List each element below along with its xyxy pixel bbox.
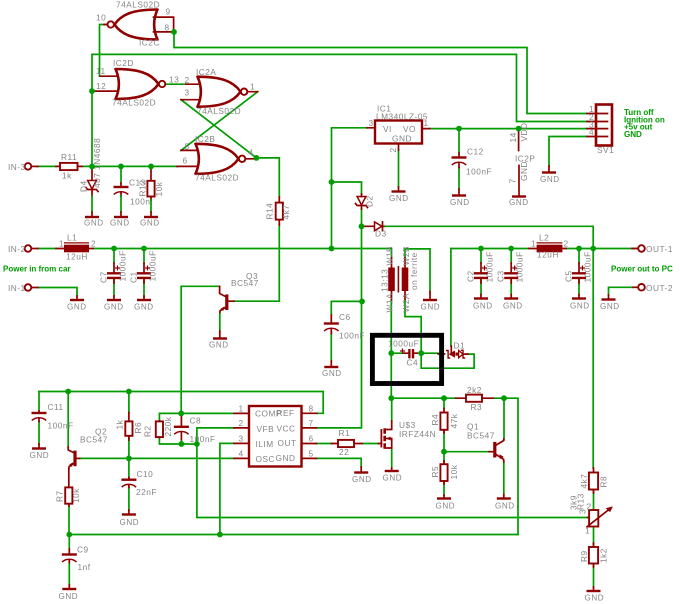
wire Q2 base [67, 392, 69, 448]
svg-text:IC2C: IC2C [139, 38, 160, 48]
wire R2 bottom to C8 bottom node [159, 437, 197, 444]
wire C12 leads [458, 129, 460, 189]
svg-text:LM340LZ-05: LM340LZ-05 [376, 112, 428, 122]
wire OUT rail down to R8 [592, 249, 594, 469]
svg-text:1: 1 [239, 404, 244, 414]
ground under mosfet [383, 468, 403, 483]
svg-text:2k2: 2k2 [467, 385, 482, 395]
wire SV1 pin4 to ground [549, 137, 587, 167]
wire IC2D.13 to IC2A.2 [166, 83, 188, 85]
wire R9 to ground lead [593, 564, 595, 588]
svg-text:GND: GND [276, 453, 296, 463]
svg-text:1000uF: 1000uF [148, 250, 158, 281]
svg-text:10: 10 [96, 13, 106, 23]
svg-text:22nF: 22nF [136, 487, 157, 497]
wire IC2C.8/9 junction down and right to SV1 pin1 [174, 32, 587, 114]
svg-text:IC2D: IC2D [113, 58, 134, 68]
wire MOSFET source to ground [391, 449, 393, 468]
svg-text:1k: 1k [62, 171, 72, 181]
svg-text:REF: REF [277, 408, 295, 418]
ground under IN-1 [67, 296, 87, 312]
wire D1 anode feed from output rail [450, 249, 452, 347]
svg-text:D1: D1 [454, 341, 466, 351]
ground under C13 [110, 217, 130, 228]
svg-text:GND: GND [495, 502, 515, 511]
svg-text:C2: C2 [466, 270, 476, 282]
svg-text:14: 14 [508, 132, 518, 142]
wire X latch diagonal IC2A.1 to IC2B.5 [181, 92, 258, 151]
svg-text:6: 6 [183, 156, 188, 166]
wire Q3 emitter [219, 314, 221, 331]
svg-text:3: 3 [369, 118, 374, 128]
wire R4 top lead [443, 398, 445, 408]
wire net from IC2D.12 junction: left rail up segment and to SV1 pin2 [92, 54, 587, 121]
wire R13 to R9 lead [593, 527, 595, 548]
svg-text:1: 1 [585, 526, 590, 536]
svg-text:BC547: BC547 [231, 278, 259, 288]
wire X latch diagonal IC2A.3 to IC2B.4 [181, 100, 256, 158]
svg-text:IC2B: IC2B [195, 134, 215, 144]
ground under OUT-2 [600, 295, 620, 311]
svg-text:C3: C3 [496, 270, 506, 282]
wire C3 leads [510, 249, 512, 295]
resistor R7 [55, 469, 82, 506]
svg-text:2: 2 [91, 239, 96, 249]
svg-text:4: 4 [589, 127, 594, 137]
svg-text:GND: GND [473, 302, 493, 311]
svg-text:R5: R5 [430, 466, 440, 478]
svg-text:3: 3 [239, 434, 244, 444]
resistor R14 [265, 197, 292, 225]
svg-text:C4: C4 [407, 358, 419, 368]
resistor R1 [332, 428, 363, 457]
svg-text:1000uF: 1000uF [515, 251, 525, 282]
svg-text:100nF: 100nF [48, 421, 74, 431]
svg-text:1000uF: 1000uF [485, 251, 495, 282]
svg-text:GND: GND [389, 194, 409, 203]
svg-text:1000uF: 1000uF [388, 339, 419, 349]
svg-text:R4: R4 [430, 414, 440, 426]
wire C5 leads [578, 249, 580, 295]
svg-text:C5: C5 [564, 270, 574, 282]
svg-text:13: 13 [169, 75, 179, 85]
polarized capacitor C2 [466, 251, 495, 283]
svg-text:IN-2: IN-2 [8, 244, 26, 254]
inductor L2 [529, 233, 569, 260]
schottky diode pair D1 [438, 341, 468, 359]
wire W2B top to ground [405, 249, 430, 292]
svg-text:OUT-1: OUT-1 [646, 244, 673, 254]
transistor Q1 BC547 [467, 422, 504, 463]
svg-text:12uH: 12uH [537, 250, 559, 260]
svg-text:R2: R2 [143, 425, 153, 437]
ground under C3 [503, 295, 523, 311]
transformer core [397, 266, 399, 293]
svg-text:C9: C9 [77, 545, 89, 555]
svg-text:10k: 10k [154, 181, 164, 196]
wire U2 pin1 COMP node [159, 413, 234, 420]
resistor R8 [579, 468, 609, 493]
svg-text:GND: GND [120, 518, 140, 527]
svg-text:3: 3 [578, 509, 588, 514]
svg-text:R11: R11 [61, 152, 77, 162]
capacitor C12 [452, 147, 493, 177]
ground under C2 [473, 295, 493, 311]
svg-text:ILIM: ILIM [256, 439, 274, 449]
svg-text:GND: GND [450, 198, 470, 207]
svg-text:47k: 47k [449, 413, 459, 428]
svg-text:1k: 1k [115, 419, 125, 429]
svg-text:2: 2 [388, 147, 398, 152]
svg-text:74ALS02D: 74ALS02D [197, 106, 241, 116]
svg-text:2: 2 [239, 418, 244, 428]
control IC U2 (COMP/REF/VFB/VCC/ILIM/OUT/OSC/GND) [234, 404, 317, 467]
svg-text:R9: R9 [579, 550, 589, 562]
svg-text:BC547: BC547 [80, 435, 108, 445]
svg-text:GND: GND [140, 219, 160, 228]
svg-text:74ALS02D: 74ALS02D [195, 173, 239, 183]
ground under IC2P [509, 197, 529, 208]
svg-text:D4: D4 [79, 180, 89, 192]
mosfet U$3 IRFZ44N [378, 420, 436, 449]
svg-text:GND: GND [322, 369, 342, 378]
wire C2 leads [480, 249, 482, 295]
svg-text:C10: C10 [137, 469, 154, 479]
transformer winding W1B/W1A [380, 246, 395, 312]
svg-text:VI: VI [383, 124, 392, 134]
svg-text:C7: C7 [99, 271, 109, 283]
resistor R2 [143, 416, 174, 437]
svg-text:74ALS02D: 74ALS02D [112, 98, 156, 108]
svg-text:GND: GND [59, 592, 79, 601]
svg-text:R1: R1 [339, 428, 351, 438]
voltage regulator IC1 LM340LZ-05 [367, 104, 430, 153]
wire IN-1 to ground [38, 288, 77, 297]
ground under C5 [570, 295, 590, 311]
svg-text:5: 5 [185, 142, 190, 152]
svg-text:GND: GND [509, 198, 529, 207]
svg-text:Power out to PC: Power out to PC [611, 265, 673, 274]
svg-text:GND: GND [209, 341, 229, 350]
svg-text:GND: GND [421, 303, 441, 312]
resistor R4 [430, 409, 459, 434]
svg-text:OUT: OUT [278, 438, 297, 448]
wire Q1 emitter to ground [503, 462, 505, 495]
capacitor C9 [62, 545, 91, 573]
wire C7 leads [113, 249, 115, 297]
resistor R9 [579, 543, 609, 567]
wire OUT-2 to ground [609, 287, 634, 295]
transistor Q2 BC547 [68, 427, 108, 470]
wire C9 leads [68, 535, 70, 586]
svg-text:R12: R12 [138, 180, 148, 197]
ground under R9 [585, 587, 605, 603]
svg-text:2: 2 [564, 239, 569, 249]
zener diode D2 [356, 194, 375, 209]
svg-text:R8: R8 [599, 476, 609, 488]
wire W2A to C4 plus node [405, 300, 421, 353]
svg-text:W1B: W1B [385, 246, 395, 265]
ground under C1 [134, 296, 154, 312]
transformer winding W2B/W2A [401, 246, 419, 312]
svg-text:R6: R6 [133, 422, 143, 434]
svg-text:GND: GND [600, 302, 620, 311]
wire IC2D.12 junction down to IN-3 rail [91, 91, 93, 166]
nor gate IC2A [181, 67, 258, 116]
wire R6 leads [128, 392, 130, 459]
svg-text:GND: GND [436, 502, 456, 511]
port IN-2 [8, 244, 38, 254]
port OUT-1 [632, 244, 673, 254]
wire IC1 output +5V line to SV1 pin3 [430, 128, 587, 130]
transistor Q3 BC547 [220, 271, 259, 314]
nor gate IC2C (mirrored) [96, 0, 174, 48]
ground under SV1 pin4 [540, 166, 560, 184]
connector SV1 [587, 104, 614, 155]
wire C4 node to D1 [391, 352, 438, 354]
wire IN-3 rail [37, 165, 177, 167]
svg-text:GND: GND [134, 303, 154, 312]
svg-text:GND: GND [585, 594, 605, 603]
svg-text:4: 4 [239, 449, 244, 459]
resistor R3 [456, 385, 493, 412]
wire IC1 gnd lead [398, 150, 400, 187]
svg-text:1: 1 [250, 82, 255, 92]
ground under D4 [84, 217, 104, 228]
svg-text:10k: 10k [71, 488, 81, 503]
polarized capacitor C4 [388, 339, 419, 368]
svg-text:VFB: VFB [257, 424, 275, 434]
ground under C10 [120, 510, 140, 527]
svg-text:OUT-2: OUT-2 [646, 283, 673, 293]
wire U2 pin3 ILIM down to bottom rail [220, 443, 234, 534]
svg-text:1000uF: 1000uF [118, 250, 128, 281]
svg-text:100n: 100n [130, 197, 150, 207]
svg-text:GND: GND [352, 475, 372, 484]
svg-text:5: 5 [309, 449, 314, 459]
wire R8 to R13 lead [593, 490, 595, 511]
capacitor C11 [32, 402, 74, 431]
svg-text:7: 7 [508, 178, 518, 183]
wire D2 branch from +12V vertical [332, 182, 362, 194]
capacitor C6 [324, 312, 365, 341]
svg-text:100nF: 100nF [339, 331, 365, 341]
capacitor C13 [114, 166, 151, 216]
svg-text:4k7: 4k7 [281, 205, 291, 220]
resistor R11 [56, 152, 82, 181]
ground under C7 [104, 296, 124, 312]
svg-text:D2: D2 [365, 195, 375, 207]
svg-text:11: 11 [96, 66, 106, 76]
ground under W2B [421, 292, 441, 312]
capacitor C8 [174, 413, 216, 444]
svg-text:L2: L2 [539, 233, 549, 243]
svg-text:W1A: W1A [385, 293, 395, 312]
wire C11 leads [38, 392, 40, 445]
svg-text:VO: VO [403, 124, 416, 134]
svg-text:VDD: VDD [519, 122, 529, 141]
wire U2 pin4 OSC to Q2 collector node [80, 457, 235, 459]
svg-text:GND: GND [67, 303, 87, 312]
svg-text:1: 1 [59, 239, 64, 249]
svg-text:2: 2 [185, 75, 190, 85]
wire output rail right [451, 248, 638, 250]
polarized capacitor C1 [129, 250, 158, 283]
wire IC1 input from +12V rail [332, 128, 368, 249]
svg-text:IC2A: IC2A [196, 67, 216, 77]
svg-text:GND: GND [104, 303, 124, 312]
svg-text:8: 8 [165, 23, 170, 33]
svg-text:1nf: 1nf [78, 562, 91, 572]
diode D3 [362, 222, 387, 239]
potentiometer R13 [569, 493, 613, 535]
svg-text:GND: GND [392, 134, 412, 144]
svg-text:13:13: 13:13 [380, 269, 390, 292]
ground under C12 [450, 189, 470, 207]
svg-text:GND: GND [84, 219, 104, 228]
wire R7 bottom lead [68, 506, 70, 535]
svg-text:6: 6 [309, 434, 314, 444]
svg-text:R7: R7 [55, 490, 65, 502]
svg-text:12uH: 12uH [66, 252, 88, 262]
svg-text:100nF: 100nF [190, 434, 216, 444]
wire REF rail (C11, Q2 base, R6) to U2 pin8 [39, 392, 323, 414]
wire C10 leads [128, 458, 130, 510]
capacitor C10 [121, 469, 157, 497]
wire D3 output to OUT rail [384, 226, 593, 248]
svg-text:IN-1: IN-1 [8, 283, 26, 293]
svg-text:L1: L1 [67, 233, 77, 243]
resistor R12 [138, 166, 165, 216]
svg-text:IRFZ44N: IRFZ44N [399, 429, 436, 439]
svg-text:GND: GND [570, 302, 590, 311]
svg-text:4k7: 4k7 [579, 474, 589, 489]
svg-text:GND: GND [383, 474, 403, 483]
svg-text:12: 12 [96, 81, 106, 91]
ground under IC1 [389, 187, 409, 203]
polarized capacitor C3 [496, 251, 525, 283]
wire R4 bottom to Q1 base node [444, 430, 489, 452]
inductor L1 [56, 233, 96, 262]
ground under Q3 [209, 331, 229, 350]
svg-text:W2A: W2A [401, 293, 411, 312]
wire IC2C.10 to IC2D.11 [100, 25, 107, 77]
svg-text:1k2: 1k2 [599, 548, 609, 563]
wire Q3 base from COMP node [181, 285, 219, 287]
wire output sense line to R4/R3 [391, 398, 518, 534]
ground under U2 pin5 [352, 467, 372, 484]
text Turn off / Ignition on / +5v out / GND [624, 108, 665, 139]
svg-text:Power in from car: Power in from car [3, 265, 71, 274]
svg-text:SV1: SV1 [597, 145, 614, 155]
wire C6 branch [331, 301, 362, 361]
svg-text:VCC: VCC [277, 423, 296, 433]
polarized capacitor C7 [99, 250, 128, 283]
svg-text:C12: C12 [467, 147, 484, 157]
svg-text:C11: C11 [48, 402, 64, 412]
svg-text:C6: C6 [339, 312, 351, 322]
svg-text:BC547: BC547 [467, 431, 495, 441]
svg-text:1: 1 [531, 239, 536, 249]
svg-text:GND: GND [624, 130, 642, 139]
wire MOSFET drain [391, 398, 393, 421]
svg-text:GND: GND [30, 451, 50, 460]
ground under R5 [436, 495, 456, 511]
port IN-3 [8, 162, 38, 172]
svg-text:9: 9 [166, 7, 171, 17]
polarized capacitor C5 [564, 251, 593, 283]
svg-text:4: 4 [249, 148, 254, 158]
svg-text:GND: GND [503, 302, 523, 311]
svg-text:7: 7 [309, 418, 314, 428]
svg-text:on ferrite: on ferrite [409, 252, 419, 290]
svg-text:C1: C1 [129, 271, 139, 283]
svg-text:8: 8 [309, 404, 314, 414]
wire IC2B.4 junction to R14 and down to Q3 collector [234, 158, 279, 301]
wire VCC net D3 node down to C6 branch and U2 pin7 [317, 226, 362, 428]
wire U2 pin2 VFB down to R13 wiper [197, 428, 588, 518]
svg-text:GND: GND [519, 161, 529, 181]
wire C1 leads [143, 249, 145, 297]
power symbol IC2P [508, 122, 536, 195]
nor gate IC2D [95, 58, 180, 108]
resistor R5 [430, 461, 459, 484]
svg-text:100nF: 100nF [466, 167, 492, 177]
svg-text:OSC: OSC [256, 454, 275, 464]
wire W1A to C4 node to drain junction [390, 300, 392, 398]
ground under C6 [322, 361, 342, 378]
wire R5 leads [443, 452, 445, 495]
svg-text:C8: C8 [190, 416, 202, 426]
svg-text:1: 1 [424, 118, 429, 128]
svg-text:407 1N4688: 407 1N4688 [92, 138, 102, 188]
wire U2 pin5 to ground [317, 458, 362, 467]
svg-text:R14: R14 [265, 203, 275, 220]
ground under R12 [140, 217, 160, 228]
svg-text:22: 22 [339, 447, 349, 457]
resistor R6 [115, 413, 144, 441]
svg-text:10k: 10k [449, 464, 459, 479]
nor gate IC2B [177, 134, 254, 183]
ground under C9 [59, 585, 79, 601]
svg-text:R13: R13 [576, 493, 586, 510]
wire IN-2 main rail left [38, 249, 392, 259]
svg-text:220k: 220k [163, 416, 173, 436]
port IN-1 [8, 283, 38, 293]
port OUT-2 [633, 283, 673, 293]
wire Q1 collector [503, 398, 505, 439]
svg-text:74ALS02D: 74ALS02D [116, 0, 160, 10]
annotation black highlight box [372, 335, 441, 383]
wire D1 cathode loop back to C4 [421, 353, 474, 368]
wire U2 pin6 OUT to R1 [317, 443, 379, 445]
ground under C11 [30, 444, 50, 460]
zener diode D4 [79, 138, 103, 216]
svg-text:3: 3 [185, 88, 190, 98]
wire bottom rail [69, 534, 518, 536]
wire D2 to D3 node [361, 209, 363, 226]
svg-text:R3: R3 [471, 402, 483, 412]
ground under Q1 [495, 495, 515, 511]
wire COMP vertical Q3 base down to U2 pin1 [180, 286, 182, 413]
svg-text:IN-3: IN-3 [8, 162, 26, 172]
svg-text:1000uF: 1000uF [583, 251, 593, 282]
svg-text:D3: D3 [375, 229, 387, 239]
svg-text:GND: GND [540, 175, 560, 184]
svg-text:GND: GND [110, 219, 130, 228]
